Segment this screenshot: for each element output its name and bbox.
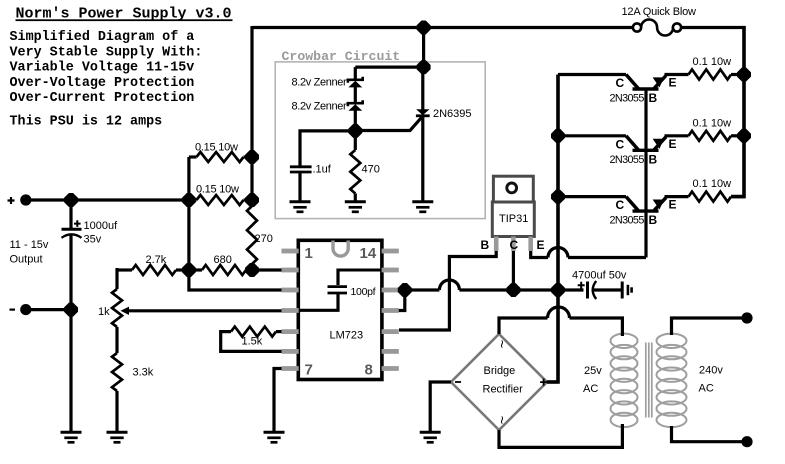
svg-text:Crowbar Circuit: Crowbar Circuit [282, 49, 401, 64]
svg-text:~: ~ [493, 416, 509, 424]
svg-text:C: C [616, 137, 625, 151]
svg-text:Variable Voltage 11-15v: Variable Voltage 11-15v [10, 61, 195, 76]
svg-text:AC: AC [583, 383, 598, 395]
svg-text:2N3055: 2N3055 [610, 154, 645, 166]
svg-text:C: C [616, 76, 625, 90]
svg-text:E: E [669, 137, 677, 151]
svg-text:E: E [669, 198, 677, 212]
svg-text:100pf: 100pf [351, 286, 376, 298]
svg-text:8: 8 [365, 362, 373, 379]
svg-text:Over-Current Protection: Over-Current Protection [10, 91, 195, 106]
svg-text:0.1 10w: 0.1 10w [693, 117, 732, 129]
svg-text:3.3k: 3.3k [133, 367, 154, 379]
svg-text:14: 14 [360, 245, 377, 262]
svg-text:Bridge: Bridge [484, 365, 516, 377]
svg-text:2.7k: 2.7k [146, 254, 167, 266]
svg-text:Rectifier: Rectifier [483, 384, 524, 396]
svg-text:B: B [649, 152, 658, 166]
svg-text:35v: 35v [84, 234, 102, 246]
svg-text:Simplified Diagram of a: Simplified Diagram of a [10, 30, 195, 45]
svg-text:8.2v Zenner: 8.2v Zenner [292, 101, 348, 113]
svg-text:0.1 10w: 0.1 10w [693, 178, 732, 190]
svg-text:240v: 240v [699, 365, 723, 377]
svg-text:B: B [649, 91, 658, 105]
svg-text:470: 470 [362, 164, 380, 176]
svg-text:~: ~ [493, 340, 509, 348]
svg-text:Very Stable Supply With:: Very Stable Supply With: [10, 45, 203, 60]
svg-text:4700uf 50v: 4700uf 50v [572, 270, 627, 282]
svg-text:E: E [669, 76, 677, 90]
svg-text:This PSU is 12 amps: This PSU is 12 amps [10, 115, 163, 130]
svg-text:LM723: LM723 [330, 330, 364, 342]
svg-text:0.15 10w: 0.15 10w [196, 184, 239, 196]
svg-text:C: C [510, 238, 519, 252]
svg-text:2N3055: 2N3055 [610, 215, 645, 227]
svg-text:E: E [537, 238, 545, 252]
svg-text:Norm's Power Supply v3.0: Norm's Power Supply v3.0 [16, 6, 232, 23]
svg-text:2N6395: 2N6395 [433, 108, 472, 120]
svg-text:2N3055: 2N3055 [610, 93, 645, 105]
svg-text:Over-Voltage Protection: Over-Voltage Protection [10, 76, 195, 91]
svg-text:0.15 10w: 0.15 10w [195, 142, 238, 154]
svg-text:B: B [649, 213, 658, 227]
svg-text:270: 270 [255, 233, 273, 245]
svg-text:B: B [481, 238, 490, 252]
svg-text:TIP31: TIP31 [499, 213, 528, 225]
svg-text:1000uf: 1000uf [84, 220, 119, 232]
svg-text:1k: 1k [98, 306, 110, 318]
svg-text:0.1 10w: 0.1 10w [693, 56, 732, 68]
svg-text:25v: 25v [584, 365, 602, 377]
svg-text:C: C [616, 198, 625, 212]
svg-text:8.2v Zenner: 8.2v Zenner [292, 77, 348, 89]
svg-text:11 - 15v: 11 - 15v [10, 239, 49, 251]
svg-text:Output: Output [10, 254, 43, 266]
svg-text:1.5k: 1.5k [242, 336, 263, 348]
svg-text:12A Quick Blow: 12A Quick Blow [622, 6, 696, 18]
svg-text:AC: AC [699, 383, 714, 395]
svg-text:680: 680 [214, 254, 232, 266]
svg-text:1: 1 [305, 245, 313, 262]
svg-text:.1uf: .1uf [313, 164, 332, 176]
svg-text:7: 7 [305, 362, 313, 379]
